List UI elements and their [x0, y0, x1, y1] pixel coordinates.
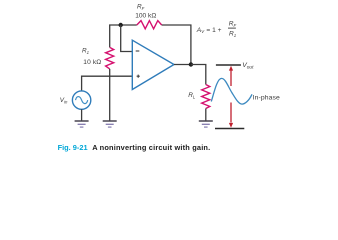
wire: R1 bottom lead to ground (crosses noninverting wire) — [109, 69, 111, 121]
wire: junction down to inverting input — [121, 25, 132, 52]
node: junction dot inverting branch — [119, 23, 123, 27]
svg-text:A noninverting circuit with ga: A noninverting circuit with gain. — [92, 143, 210, 152]
output sine waveform — [211, 78, 252, 104]
ground for RL — [199, 121, 213, 127]
wire: RL to ground — [205, 109, 207, 121]
wire: top feedback right segment and vertical down to output node — [162, 25, 191, 65]
node: output junction dot — [189, 62, 193, 66]
wire: Vin up to noninverting input — [82, 76, 132, 91]
resistor RL zigzag — [202, 85, 210, 109]
resistor RF zigzag — [137, 21, 162, 29]
sine symbol inside Vin — [76, 97, 88, 104]
svg-text:= 1 +: = 1 + — [206, 27, 221, 34]
svg-text:In-phase: In-phase — [253, 94, 280, 101]
wire: Vin down to ground — [81, 109, 83, 121]
Vout top level marker line — [216, 64, 241, 66]
wire: op-amp output — [174, 64, 191, 66]
svg-text:Fig. 9-21: Fig. 9-21 — [58, 143, 88, 152]
op-amp noninverting marker (+) — [137, 75, 140, 78]
svg-text:10 kΩ: 10 kΩ — [83, 59, 101, 66]
resistor R1 zigzag — [106, 47, 114, 69]
ground for R1 — [103, 121, 117, 127]
op-amp inverting marker (-) — [136, 50, 140, 52]
formula Av = 1 + RF/R1 — [196, 21, 237, 38]
ground for Vin — [75, 121, 89, 127]
arrow down to Vout bottom marker — [229, 103, 233, 128]
Vout bottom level marker line — [215, 128, 244, 130]
source Vin circle — [72, 91, 90, 109]
caption Fig. 9-21 — [58, 143, 211, 152]
op-amp U1 triangle — [132, 40, 174, 89]
svg-text:100 kΩ: 100 kΩ — [135, 13, 156, 20]
wire: R1 top lead up and top-left feedback segment — [110, 25, 137, 47]
wire: output node to RL — [191, 65, 206, 85]
arrow up to Vout top marker — [229, 66, 233, 86]
